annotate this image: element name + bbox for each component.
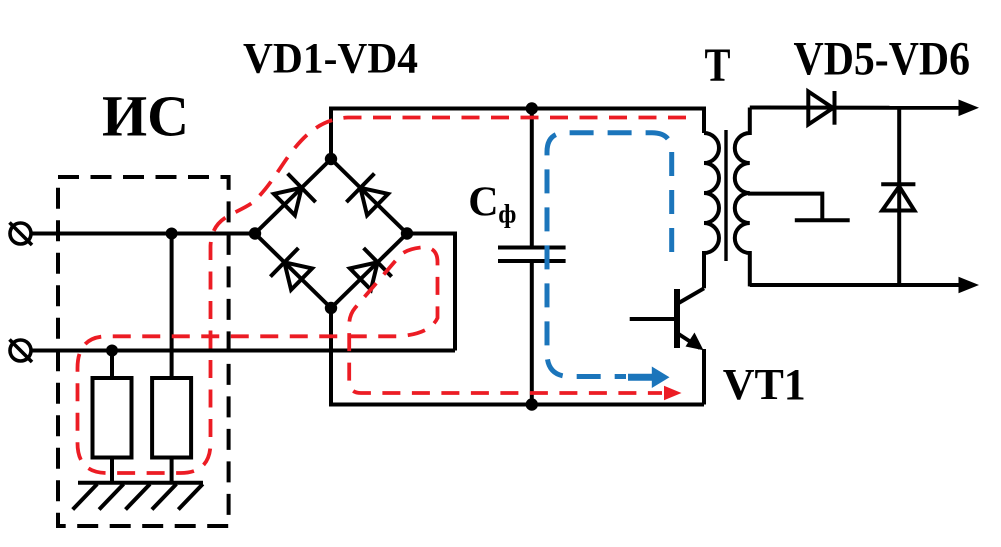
diode VD2 upper-right (346, 174, 388, 216)
wire R1 to ground (110, 458, 114, 483)
svg-text:ИС: ИС (102, 84, 189, 149)
node bridge right (401, 227, 413, 239)
wire bridge right node to line2 riser (407, 234, 455, 351)
node top rail junction (526, 102, 538, 114)
wire VD6 branch (897, 108, 901, 285)
svg-text:T: T (705, 39, 731, 92)
diode VD3 lower-left (270, 248, 312, 290)
wire secondary top to VD5 (750, 106, 960, 110)
node bridge left (249, 227, 261, 239)
diode VD1 upper-left (274, 174, 316, 216)
wire R2 to ground (170, 458, 174, 483)
output arrow top (959, 100, 980, 117)
capacitor Cf (498, 109, 566, 405)
diode VD5 (808, 91, 834, 125)
transistor VT1 (630, 288, 704, 404)
output arrow bottom (959, 277, 980, 294)
bridge arm bottom-left wire (255, 234, 331, 309)
wire secondary bottom rail (750, 283, 960, 287)
node junction J2 (106, 345, 118, 357)
blue arrow (628, 367, 670, 389)
node bridge bottom (325, 302, 337, 314)
svg-text:VT1: VT1 (723, 360, 806, 409)
ground common bar of centre tap (795, 218, 850, 222)
bridge arm left-top wire (255, 159, 331, 234)
wire J1 to resistor R2 (170, 234, 174, 379)
node junction J1 (166, 228, 178, 240)
box IS dashed source boundary (58, 177, 229, 526)
terminal input 1 (10, 223, 33, 246)
resistor R2 (152, 378, 191, 458)
node bridge top (325, 153, 337, 165)
bridge arm right-top wire (331, 159, 407, 234)
ground earth symbol (73, 483, 203, 510)
wire bridge top to top rail and transformer primary (331, 109, 704, 160)
transformer core (724, 130, 727, 261)
resistor R1 (93, 378, 132, 458)
node bottom rail junction (526, 398, 538, 410)
wire input line 1 (31, 232, 255, 236)
transformer T primary winding (704, 133, 719, 288)
red arrowhead (664, 386, 682, 400)
transformer T secondary winding (735, 108, 750, 287)
wire input line 2 (31, 349, 455, 353)
svg-text:VD1-VD4: VD1-VD4 (243, 36, 418, 83)
diode VD4 lower-right (350, 248, 392, 290)
svg-text:VD5-VD6: VD5-VD6 (794, 33, 971, 86)
svg-text:ф: ф (498, 200, 516, 229)
diode VD6 (881, 184, 915, 210)
wire J2 to resistor R1 (110, 351, 114, 379)
wire secondary centre tap (748, 194, 822, 221)
terminal input 2 (10, 340, 33, 363)
blue switching current loop (547, 133, 672, 377)
red interference current path (78, 118, 687, 474)
wire bridge bottom to bottom rail (331, 308, 704, 405)
bridge arm bottom-right wire (331, 234, 407, 309)
svg-text:C: C (468, 179, 498, 225)
